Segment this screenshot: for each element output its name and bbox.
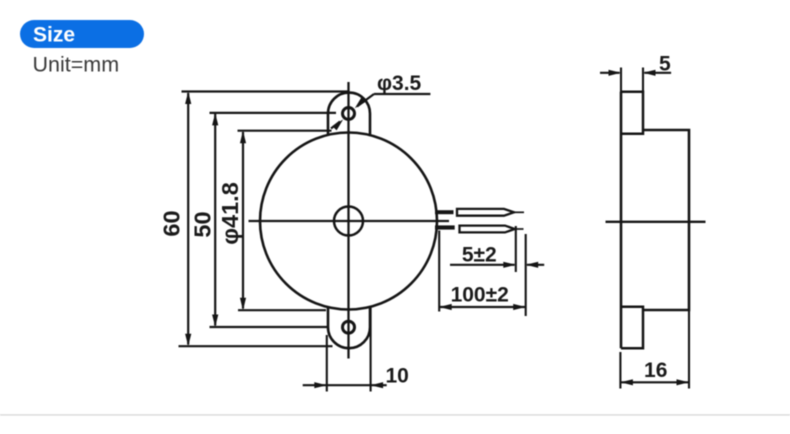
top lead insulated wire: [457, 209, 514, 216]
svg-text:φ3.5: φ3.5: [377, 72, 422, 95]
svg-text:60: 60: [159, 210, 185, 236]
bottom mounting tab: [328, 306, 370, 348]
bottom lead insulated wire: [460, 226, 515, 233]
leader diameter 3.5: [331, 72, 430, 130]
unit label: [33, 53, 120, 77]
svg-text:φ41.8: φ41.8: [217, 182, 243, 245]
svg-text:100±2: 100±2: [451, 284, 509, 307]
top lead bare tip: [514, 211, 524, 213]
bottom lead stub: [435, 225, 455, 229]
svg-text:5: 5: [659, 52, 671, 75]
bottom lead bare tip: [515, 228, 524, 230]
side view body: [621, 92, 689, 349]
dimension 16: [620, 311, 689, 389]
dimension diameter 41.8: [217, 131, 332, 311]
vertical center line: [347, 82, 349, 359]
side view center line: [606, 221, 706, 223]
svg-text:10: 10: [386, 365, 409, 388]
dimension 10: [303, 307, 409, 392]
svg-text:5±2: 5±2: [462, 243, 497, 266]
svg-text:16: 16: [644, 359, 667, 382]
top tab hole: [343, 108, 355, 120]
center sound hole: [334, 207, 363, 236]
top mounting tab: [328, 93, 370, 137]
side view top tab: [621, 92, 643, 134]
size pill: [20, 20, 144, 48]
dimension 60: [159, 92, 349, 347]
svg-text:Unit=mm: Unit=mm: [33, 53, 120, 77]
svg-text:50: 50: [190, 211, 216, 237]
svg-text:Size: Size: [33, 23, 75, 46]
dimension 50: [190, 113, 337, 327]
footer divider: [0, 414, 790, 415]
dimension 100 plus-minus 2: [439, 231, 526, 312]
dimension 5 plus-minus 2: [450, 226, 544, 316]
side view bottom tab: [621, 307, 643, 349]
top lead stub: [435, 210, 454, 214]
bottom tab hole: [343, 321, 355, 333]
dimension 5 side: [600, 52, 671, 93]
buzzer body circle: [260, 133, 437, 310]
horizontal center line: [249, 220, 450, 222]
